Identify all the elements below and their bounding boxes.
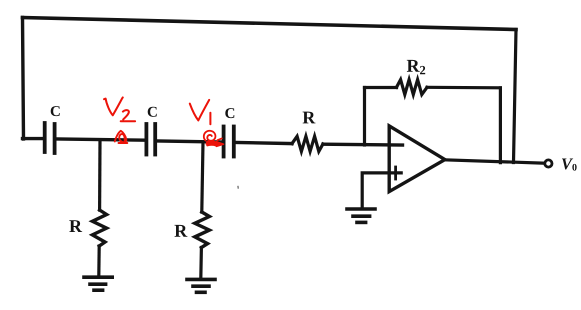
- wire: feedback right vertical down to output: [514, 30, 517, 163]
- output terminal V0 circle: [545, 160, 552, 167]
- capacitor C2 right plate: [153, 124, 157, 155]
- wire: op-amp output to terminal: [445, 160, 545, 163]
- capacitor C1 left plate: [43, 123, 47, 152]
- resistor R2v (vertical zigzag to ground): [195, 212, 210, 248]
- label V1 (red handwritten node name): [190, 100, 209, 121]
- ground (below second R): [187, 278, 215, 282]
- wire: feedback left vertical (top-left corner down to input node): [23, 18, 24, 140]
- op-amp plus sign (non-inverting input marker): [394, 167, 397, 179]
- capacitor C1 right plate: [53, 124, 57, 153]
- wire: C2 to C3 (through node V1): [157, 141, 222, 142]
- label R2 (feedback resistor): [407, 60, 425, 74]
- wire: node V2 vertical down to resistor R1: [98, 140, 102, 210]
- wire: node V1 vertical down to resistor R2v: [202, 142, 203, 212]
- wire: C3 to series resistor R: [236, 142, 292, 143]
- label R (series resistor): [303, 112, 316, 124]
- node speck (scan dot): [237, 187, 239, 189]
- wire: R2 feedback left vertical (to inverting node): [363, 88, 366, 146]
- ground (below R1): [84, 275, 112, 279]
- wire: R2v to ground: [199, 248, 203, 279]
- wire: non-inverting input with plus bar: [362, 173, 401, 208]
- capacitor C2 left plate: [144, 124, 148, 155]
- capacitor C3 right plate: [232, 127, 236, 157]
- wire: R1 to ground: [97, 246, 101, 277]
- op-amp U1 triangle: [389, 126, 445, 192]
- label V2 (red handwritten node name): [104, 97, 123, 115]
- wire: feedback top horizontal: [23, 18, 517, 30]
- label C (capacitor C1): [51, 106, 60, 116]
- label C (capacitor C2): [148, 107, 157, 117]
- node V1 red scribble circle with arrow: [204, 131, 216, 141]
- label C (capacitor C3): [225, 108, 234, 118]
- resistor R (series, horizontal zigzag): [292, 136, 323, 151]
- wire: R to op-amp inverting input (minus stub inside triangle): [323, 142, 403, 146]
- label R (resistor to ground, second): [175, 225, 188, 237]
- node V2 red scribble circle: [115, 131, 128, 143]
- wire: R2 feedback top-right horizontal: [427, 86, 500, 90]
- resistor R1 (vertical zigzag to ground): [92, 210, 106, 246]
- label R (resistor R1 left): [69, 220, 82, 232]
- capacitor C3 left plate: [222, 127, 226, 157]
- wire: R2 feedback right vertical down to output: [499, 88, 502, 163]
- wire: input node to capacitor C1: [23, 137, 44, 140]
- ground (op-amp non-inverting input): [347, 207, 375, 211]
- wire: C1 to C2 (through node V2): [57, 139, 145, 140]
- wire: R2 feedback top-left horizontal: [365, 86, 397, 89]
- label V0 (output): [562, 159, 577, 171]
- resistor R2 (feedback, horizontal zigzag): [397, 80, 428, 95]
